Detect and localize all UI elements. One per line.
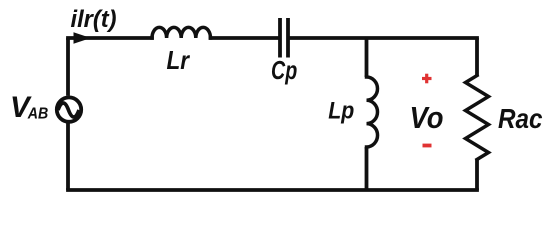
svg-text:Cp: Cp	[271, 55, 297, 85]
svg-text:Lr: Lr	[167, 45, 191, 75]
svg-text:ilr(t): ilr(t)	[71, 6, 117, 33]
svg-text:AB: AB	[27, 106, 48, 123]
svg-text:Rac: Rac	[498, 103, 543, 134]
svg-text:Lp: Lp	[328, 98, 354, 125]
svg-text:Vo: Vo	[410, 100, 444, 135]
